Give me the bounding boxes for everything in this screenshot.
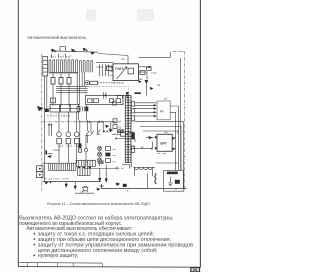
VU inner dark box — [175, 180, 180, 184]
secondary winding loop 4 — [148, 167, 152, 169]
bottom-left lower line — [75, 192, 94, 194]
svg-text:б2: б2 — [118, 126, 121, 129]
VU dark header — [167, 172, 178, 175]
T3 tap pad 5 — [131, 146, 134, 152]
terminal box row 2 ticks — [90, 160, 93, 166]
interlock lower box — [78, 149, 81, 152]
svg-text:тн датчик тока: тн датчик тока — [44, 178, 70, 181]
trip arrow up 1 — [48, 125, 50, 136]
step link polyline — [122, 165, 130, 169]
motor symbol M — [83, 186, 88, 191]
down arrow to node — [145, 80, 149, 84]
under-bus arrow 2 — [74, 186, 77, 190]
mid dash-dot segment — [115, 167, 124, 169]
line arrow symbol 2 — [71, 49, 77, 53]
lower-left winding comb — [49, 163, 76, 170]
fuse row FU3 — [67, 78, 71, 85]
PMZ left pin ticks — [110, 68, 113, 76]
trip arrow up 2 head — [50, 123, 52, 125]
plug connector XP3 — [74, 132, 79, 137]
breaker contact block 3 — [70, 104, 79, 112]
fuse row FU2 — [59, 78, 63, 85]
main transformer T3 winding left — [125, 96, 128, 163]
VU ground stem — [169, 177, 171, 184]
bullet 3 square — [34, 244, 36, 246]
footer table bottom frame line — [18, 266, 201, 269]
crossover wire 2 — [56, 87, 88, 89]
under-bus arrow 1 stem — [65, 182, 67, 184]
crossover wire 1 — [56, 85, 88, 87]
terminal block cell 2 dot — [39, 174, 41, 176]
link wire with x ends — [115, 138, 135, 140]
aux contact box 1 — [140, 71, 145, 75]
aux box above contacts — [51, 98, 56, 103]
terminal block cell 1 dot — [39, 168, 41, 170]
svg-text:реверс: реверс — [114, 81, 125, 84]
ground arrow head — [98, 178, 101, 182]
junction box at top middle — [107, 66, 113, 71]
secondary winding loop 3 — [144, 167, 148, 169]
aux circle wire top — [85, 135, 87, 148]
line arrow symbol 4 — [91, 51, 95, 55]
control link wire horizontal — [130, 148, 152, 150]
control wire column 2 — [79, 72, 81, 104]
phase wire B mid — [67, 112, 69, 163]
svg-text:тм2 тм4 тм6: тм2 тм4 тм6 — [57, 145, 81, 148]
enclosure boundary top-right corner — [173, 50, 184, 52]
drop to contact 3 — [102, 122, 104, 133]
junction tick labels — [134, 92, 141, 94]
bottom-left bus wire — [43, 181, 101, 183]
mid bus drop 2 — [121, 96, 123, 99]
tap wire 1 — [135, 102, 157, 104]
wire from PMZ right — [139, 71, 148, 73]
under-bus dark arrow 3 — [96, 188, 100, 191]
BRU terminal arrow lb — [155, 147, 158, 150]
control bus junction dot — [89, 121, 91, 123]
T3 tap pad 1 — [131, 102, 134, 107]
control riser b — [87, 120, 89, 143]
button lamp Kn1 — [97, 146, 101, 150]
footer table top line — [18, 261, 102, 264]
svg-text:ПМЗ: ПМЗ — [115, 67, 123, 71]
aux circle wire bottom — [85, 152, 87, 163]
terminal box dark tick 1 — [78, 167, 80, 168]
contact slash 1 — [85, 131, 89, 136]
right wire bundle outer — [180, 58, 182, 171]
control wire column 3 — [81, 72, 83, 86]
under-bus arrow 1 — [65, 184, 68, 188]
svg-text:запрет: запрет — [151, 72, 158, 74]
terminal box row 2 — [87, 160, 95, 166]
interlock dark block — [78, 143, 81, 148]
relay contact cell 1 — [88, 99, 92, 103]
tap dot square 2 — [121, 130, 124, 133]
footer table divider 4 — [72, 263, 74, 267]
VU left lead — [154, 173, 156, 185]
mid horizontal wire — [84, 168, 115, 170]
feeder drop to bottom bus — [44, 163, 46, 181]
relay contact cell 2 — [93, 99, 98, 103]
fuse row FU1 — [51, 78, 55, 85]
svg-text:п: п — [113, 99, 115, 102]
junction x mark 2 — [107, 131, 109, 133]
button lamp Kn2 — [97, 152, 101, 156]
wire into BRU arrow — [148, 136, 152, 139]
leakage relay unit BRU — [157, 134, 172, 151]
crossover wire 3 — [56, 89, 88, 91]
terminal box row 1 ticks — [79, 160, 84, 166]
control wire column 4 — [84, 72, 86, 86]
fuse row top ticks — [53, 73, 69, 78]
control bus drop right — [169, 52, 171, 58]
svg-text:Др: Др — [160, 109, 164, 113]
top feeder bus wire right — [98, 54, 128, 56]
junction x mark 1 — [103, 131, 105, 133]
BRU wire right top — [172, 137, 175, 139]
secondary comb bus — [134, 166, 155, 168]
footer table divider 1 — [27, 263, 29, 267]
input terminal strip X1 — [43, 57, 48, 77]
main transformer T3 winding right — [128, 96, 131, 163]
svg-text:ш3: ш3 — [164, 98, 168, 101]
signal arrow 3 — [150, 87, 154, 90]
tap cell b2 — [113, 125, 117, 129]
phase wire B down — [60, 84, 62, 106]
PMZ out arrow head — [149, 66, 152, 68]
svg-text:Рисунок 11 – Схема автоматичес: Рисунок 11 – Схема автоматического выклю… — [47, 202, 150, 206]
lower-left comb bus — [43, 162, 77, 164]
mid bus drop 3 — [126, 96, 128, 99]
page right frame line — [199, 0, 201, 267]
riser wires from T2 to mid bus — [96, 64, 112, 76]
PMZ adjust arrow — [117, 67, 128, 79]
terminal block cell 1 — [37, 166, 43, 172]
bottom junction blob — [116, 182, 121, 186]
contact slash 3 — [96, 130, 100, 135]
tap wire 3 arrowed — [135, 108, 154, 110]
plug connector XP1 — [57, 132, 62, 137]
wire riser mid 2 — [105, 92, 107, 99]
T3 left terminal P — [113, 102, 117, 105]
node lamp HL1 — [85, 81, 89, 85]
wire to relay row — [112, 133, 121, 135]
trip arrow up 2 — [50, 125, 52, 136]
entry connector blob — [45, 109, 49, 112]
terminal block cell 2 — [37, 172, 43, 178]
svg-text:А1: А1 — [121, 57, 125, 61]
signal arrow 1 — [138, 80, 142, 83]
feeder wire left 2 — [46, 76, 48, 109]
button stack lead — [99, 163, 101, 167]
T3 tap pad 3 — [131, 116, 134, 121]
wire riser mid 1 — [103, 92, 105, 99]
control wire column 1 — [76, 72, 78, 104]
enclosure boundary left (dash-dot) — [41, 54, 43, 191]
PMZ drop wire — [146, 72, 148, 80]
phase wire C mid — [76, 112, 78, 163]
line arrow symbol 1 — [51, 49, 57, 53]
phase wire A mid — [58, 112, 60, 163]
svg-text:ш2: ш2 — [139, 77, 143, 81]
supply entry arrow — [37, 106, 44, 111]
wire below down arrow — [145, 84, 147, 95]
bus tick 3 — [65, 54, 67, 58]
plug socket body 3 — [75, 138, 80, 143]
svg-text:Автоматический выключатель.: Автоматический выключатель. — [27, 35, 87, 40]
T3 winding left ticks — [125, 98, 128, 160]
terminal strip ticks — [43, 60, 48, 72]
PMZ approach wire — [96, 61, 113, 63]
routing loop outer — [135, 122, 184, 189]
plug socket body 2 — [66, 138, 71, 143]
overcurrent unit box PMZ — [113, 64, 139, 81]
tap dot square 1 — [117, 130, 120, 133]
top bleed smudge 1 — [86, 9, 96, 21]
svg-text:кно: кно — [112, 149, 116, 151]
secondary winding loop 1 — [135, 167, 139, 169]
phase wire A down — [52, 84, 54, 106]
chassis dark bar — [45, 150, 47, 154]
transformer T1 winding top caps — [49, 59, 78, 61]
bottom dark block — [123, 184, 127, 187]
plug socket body 1 — [57, 138, 62, 143]
feeder wire left 1 — [44, 76, 46, 163]
tap wire 2 arrow — [154, 104, 157, 106]
lower pointer dot — [50, 182, 51, 183]
VU left winding loops — [155, 174, 157, 183]
tap wire 4 arrowed — [135, 111, 154, 113]
BRU terminal arrow lt — [155, 136, 158, 139]
right mid link line — [156, 162, 179, 164]
transformer T1 primary winding comb — [49, 60, 78, 73]
junction dark cluster ST — [126, 92, 129, 95]
relay row junction dot — [126, 133, 128, 135]
bottom bus wire right — [101, 188, 187, 190]
T3 bottom link to comb — [130, 158, 132, 167]
dark contact arrow — [109, 128, 113, 132]
ground arrow wire — [99, 168, 101, 178]
under-bus arrow 2 stem — [74, 182, 76, 186]
svg-text:тку: тку — [112, 161, 116, 163]
trip arrow up 1 head — [48, 123, 50, 125]
button lamp Kn3 cross — [98, 159, 101, 162]
motor symbol legs — [82, 187, 88, 192]
button lamp Kn2 cross — [98, 153, 101, 156]
chassis link wire — [48, 150, 60, 153]
resistor R1 — [90, 81, 98, 84]
control bus x mark 2 — [102, 121, 104, 123]
crossover wire 4 — [56, 91, 88, 93]
BRU bottom dash-dot — [157, 153, 167, 155]
dashed sub-block boundary — [86, 86, 129, 95]
bullet 4 square — [34, 255, 36, 257]
lamp HL1 dot — [87, 82, 89, 84]
T3 winding right ticks — [128, 98, 131, 160]
tap cell a4 — [113, 119, 117, 123]
bus drop to PMZ — [127, 56, 129, 64]
tap wire 2 arrowed — [135, 104, 154, 106]
breaker contact block 1 — [50, 104, 60, 112]
control arrow dark — [105, 125, 109, 128]
bullet 2 square — [34, 238, 36, 240]
routing loop inner — [140, 127, 181, 171]
choke out wire bottom — [170, 112, 175, 170]
breaker contact block 2 — [60, 104, 70, 112]
long drop arrow head — [105, 179, 108, 183]
svg-text:5: 5 — [127, 190, 129, 193]
output unit box VU — [164, 171, 184, 192]
choke block Dr — [157, 101, 170, 120]
bus tick 1 — [51, 54, 53, 58]
secondary drop wires — [135, 167, 153, 176]
plus mark on wire — [115, 167, 118, 170]
pin comb connector — [78, 167, 91, 176]
button contact rect 3 — [105, 159, 110, 163]
control riser a — [79, 120, 81, 143]
junction mark x — [105, 94, 107, 96]
fuse symbol F1 — [60, 47, 66, 52]
tap wire 4 arrow — [154, 111, 157, 113]
T3 tap pad 4 dark — [132, 133, 135, 140]
tap dot square 1 dot — [118, 131, 119, 132]
control bus wire lower — [79, 121, 117, 123]
page left frame line — [17, 0, 19, 267]
enclosure boundary right (dash-dot) — [183, 51, 185, 190]
routing loop third — [143, 131, 178, 134]
terminal box dark tick 3 — [89, 167, 91, 168]
footer table divider 3 — [57, 263, 59, 267]
relay contact cell 4 — [116, 99, 121, 103]
page number smudge — [193, 269, 197, 271]
control link drop right — [151, 142, 153, 149]
relay unit box K1 — [86, 95, 123, 104]
secondary winding loop 2 — [139, 167, 143, 169]
transformer T1 bottom bar — [49, 72, 78, 74]
T3 tap pad 2 — [131, 108, 134, 113]
button lamp Kn3 — [97, 158, 101, 162]
footer table divider 5 — [101, 263, 103, 267]
terminal box small dark — [98, 160, 104, 164]
relay contact cell 3 — [110, 99, 114, 103]
relay row rect 2 — [128, 132, 134, 136]
snubber resistor R2 — [77, 107, 80, 112]
button contact rect 1 — [105, 147, 110, 151]
button stack link 2 — [99, 157, 101, 159]
aux small circle — [84, 149, 87, 152]
button lamp Kn1 cross — [98, 147, 101, 150]
control bus wire — [139, 56, 171, 58]
top feeder bus wire — [51, 51, 99, 52]
bus tick 2 — [58, 54, 60, 58]
drop to contact 2 — [97, 122, 99, 133]
svg-text:кнв: кнв — [112, 155, 116, 157]
dashed wire to PMZ block — [98, 82, 115, 84]
transformer T2 winding comb — [79, 61, 92, 73]
drop to contact 1 — [90, 122, 92, 133]
terminal box row 1 — [76, 160, 86, 166]
relay row rect 1 — [121, 132, 126, 136]
VU ground bars — [168, 183, 173, 186]
mid drop wire to bottom bus — [147, 174, 149, 189]
button stack link 1 — [99, 151, 101, 153]
terminal box dark tick 2 — [83, 167, 85, 168]
button contact rect 2 dark — [105, 153, 110, 157]
mid bus wire — [116, 95, 129, 97]
pin comb base — [78, 175, 91, 177]
plug connector XP2 — [66, 132, 71, 137]
svg-text:ш1: ш1 — [157, 83, 161, 87]
BRU terminal arrow rb — [171, 148, 174, 151]
contact chain link line — [49, 107, 80, 109]
snubber capacitor C1 — [82, 106, 84, 111]
lower pointer arrow — [45, 181, 49, 184]
phase wire C down — [68, 84, 70, 106]
control bus x mark 1 — [98, 121, 100, 123]
svg-text:са1 са4 са7: са1 са4 са7 — [51, 54, 73, 58]
contact slash 2 — [91, 131, 94, 136]
svg-text:БРУ: БРУ — [160, 142, 167, 146]
top bleed smudge 2 — [137, 9, 154, 21]
snubber leads — [79, 105, 87, 121]
wire into BRU — [146, 137, 154, 139]
aux contact box 2 — [147, 67, 152, 70]
tap wire 5 arrow — [154, 115, 157, 117]
svg-text:нулевую защиту;: нулевую защиту; — [38, 253, 79, 259]
tap dot square 2 dot — [122, 131, 123, 132]
bullet 1 square — [34, 233, 36, 235]
BRU terminal arrow rt — [171, 137, 174, 140]
control link drop left — [130, 149, 132, 160]
page number cell — [191, 268, 200, 272]
snubber varistor dark — [85, 107, 88, 112]
choke out wire top — [170, 106, 178, 171]
tap wire 5 arrowed — [135, 115, 154, 117]
PMZ inner relay rect — [128, 68, 134, 74]
lower-left comb base — [49, 169, 76, 171]
footer table divider 2 — [37, 263, 39, 267]
tap wire 3 arrow — [154, 107, 157, 109]
svg-text:а4: а4 — [118, 121, 121, 124]
transformer T2 winding caps — [79, 60, 92, 62]
chassis arrow — [47, 155, 52, 158]
line arrow symbol 3 — [83, 48, 89, 52]
link wire drop — [134, 139, 136, 143]
mid bus drop 1 — [117, 96, 119, 99]
control bus dash-dot left — [43, 121, 79, 123]
PMZ out wire arrowed — [139, 66, 149, 68]
bottom cross mark — [100, 184, 104, 188]
drop to contact 4 — [110, 122, 112, 132]
BRU wire right bottom — [172, 147, 175, 149]
long drop wire — [105, 165, 107, 179]
